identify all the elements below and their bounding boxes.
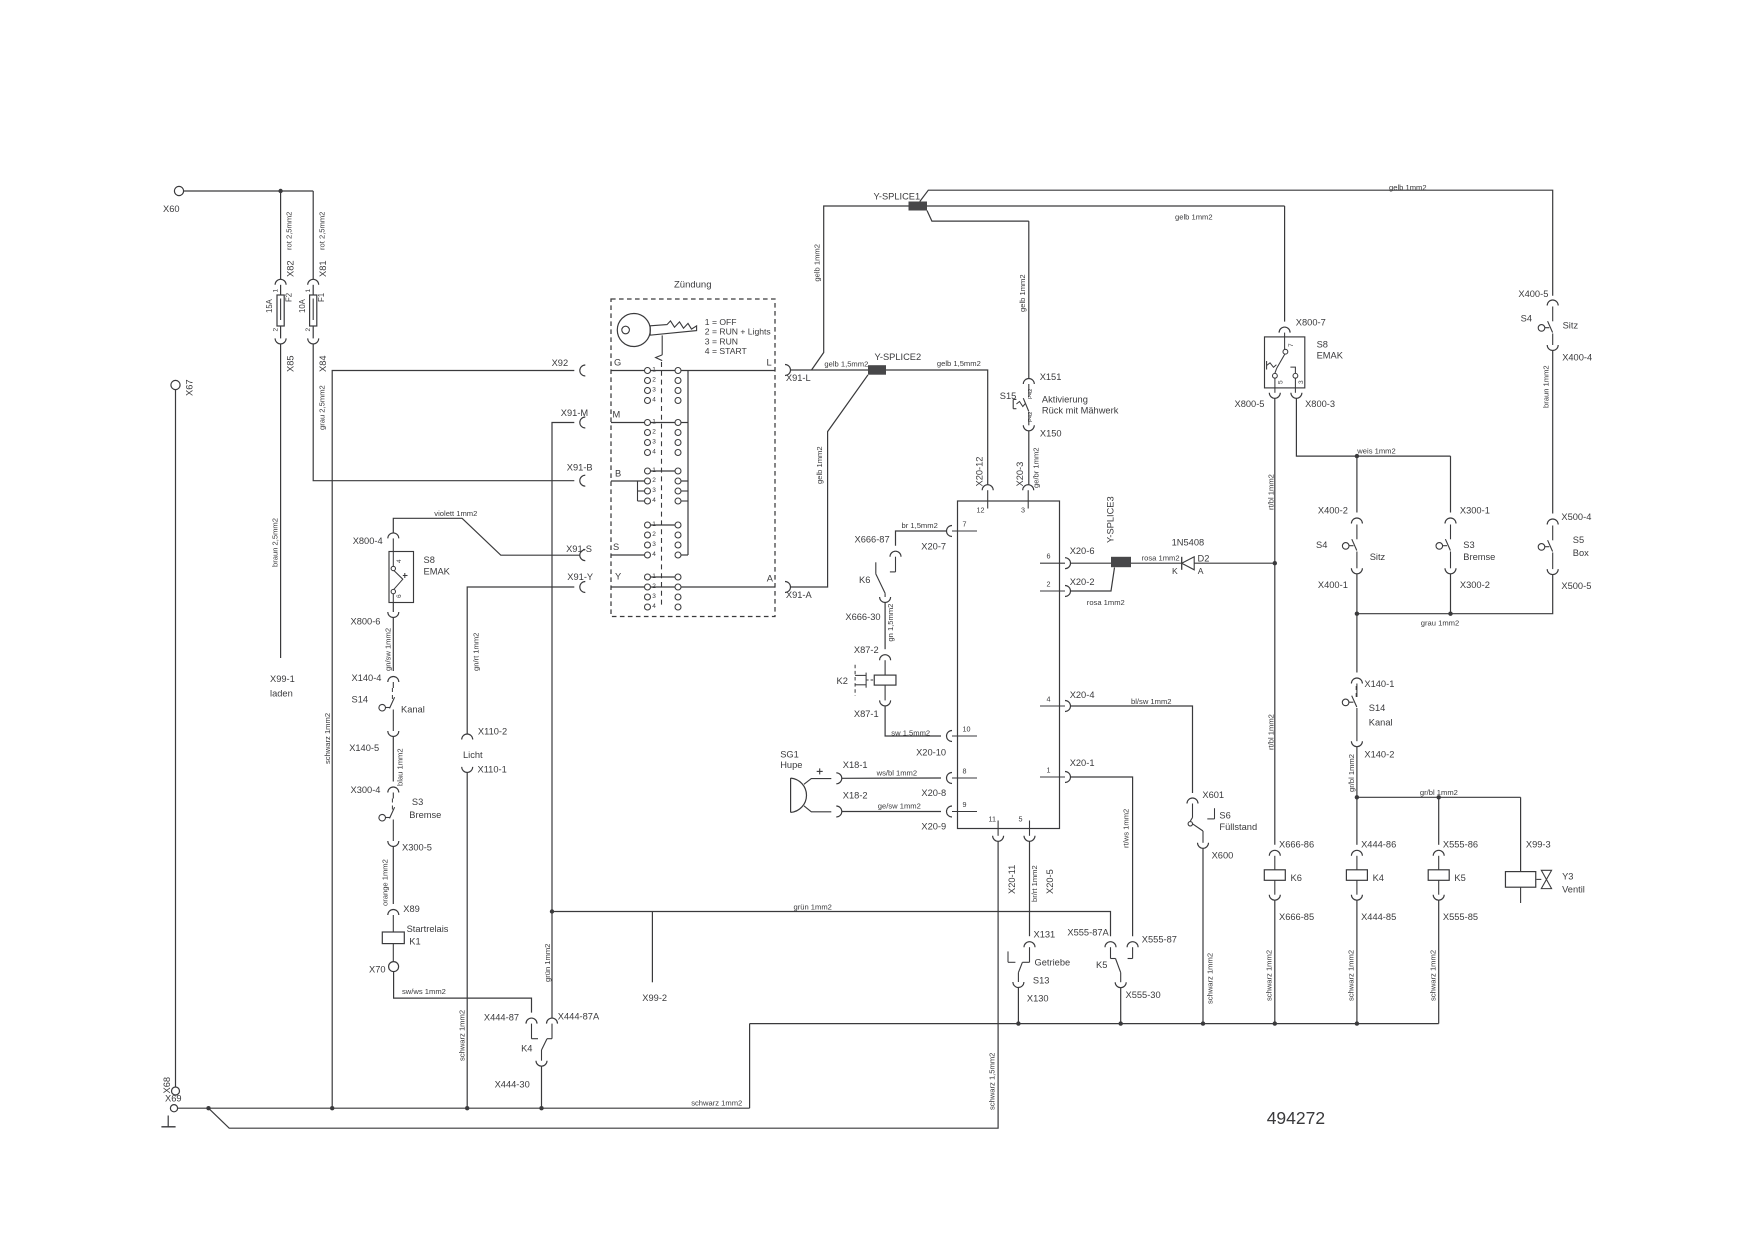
fuse F1 10A bbox=[298, 285, 326, 332]
connector X666-85 bbox=[1269, 880, 1314, 922]
svg-text:K6: K6 bbox=[1291, 873, 1302, 883]
svg-text:3: 3 bbox=[652, 593, 656, 600]
connector X81 bbox=[308, 260, 329, 284]
svg-text:8: 8 bbox=[963, 767, 967, 776]
svg-text:X131: X131 bbox=[1034, 930, 1056, 940]
svg-text:X99-2: X99-2 bbox=[642, 993, 667, 1003]
svg-text:1: 1 bbox=[652, 521, 656, 528]
svg-text:EMAK: EMAK bbox=[424, 567, 451, 577]
relay coil K6 bbox=[1264, 856, 1302, 883]
svg-text:rot 2,5mm2: rot 2,5mm2 bbox=[285, 212, 294, 250]
connector X555-87 bbox=[1127, 935, 1177, 948]
svg-text:X444-87: X444-87 bbox=[484, 1013, 519, 1023]
svg-text:X18-2: X18-2 bbox=[843, 791, 868, 801]
wire gelb 1mm2 X91-A bbox=[791, 375, 869, 587]
svg-text:X20-7: X20-7 bbox=[921, 542, 946, 552]
svg-text:X400-5: X400-5 bbox=[1518, 289, 1548, 299]
wire ge/sw 1mm2 bbox=[842, 801, 941, 811]
svg-text:grau 1mm2: grau 1mm2 bbox=[1421, 619, 1459, 628]
svg-text:4: 4 bbox=[396, 559, 403, 563]
wire ignition Y-A row bbox=[611, 586, 775, 588]
wire X99-3 bbox=[1526, 840, 1551, 850]
svg-text:Rück mit Mähwerk: Rück mit Mähwerk bbox=[1042, 406, 1119, 416]
svg-text:S8: S8 bbox=[1317, 340, 1328, 350]
svg-text:gelb 1mm2: gelb 1mm2 bbox=[1389, 183, 1427, 192]
wire rt/bl 1mm2 bbox=[1266, 398, 1275, 845]
connector X800-5 bbox=[1235, 388, 1281, 409]
svg-text:X87-1: X87-1 bbox=[854, 709, 879, 719]
svg-text:2: 2 bbox=[305, 328, 312, 332]
svg-text:X150: X150 bbox=[1040, 429, 1062, 439]
junction grau mid bbox=[1448, 612, 1452, 616]
wire X69 ground rail bbox=[178, 1098, 750, 1108]
svg-text:X20-10: X20-10 bbox=[916, 748, 946, 758]
svg-text:7: 7 bbox=[1288, 343, 1295, 347]
ignition terminal letters bbox=[613, 358, 774, 584]
svg-text:grau 2,5mm2: grau 2,5mm2 bbox=[318, 385, 327, 430]
svg-text:X666-85: X666-85 bbox=[1279, 912, 1314, 922]
wire gelb splice1 right leg bbox=[927, 206, 1285, 221]
wire X20-2 to splice3 bbox=[1071, 568, 1125, 608]
junction on X60 wire bbox=[278, 189, 282, 193]
svg-text:X20-6: X20-6 bbox=[1070, 546, 1095, 556]
svg-text:S15: S15 bbox=[1000, 391, 1017, 401]
svg-text:X666-86: X666-86 bbox=[1279, 840, 1314, 850]
key position legend bbox=[705, 317, 771, 356]
wire schwarz 1mm2 K5 bbox=[1429, 900, 1439, 1023]
ignition right bus bbox=[687, 371, 689, 556]
svg-text:X300-4: X300-4 bbox=[351, 785, 381, 795]
svg-text:9: 9 bbox=[963, 800, 967, 809]
svg-text:X85: X85 bbox=[286, 355, 296, 372]
svg-text:11: 11 bbox=[989, 815, 996, 824]
valve coil Y3 Ventil bbox=[1505, 870, 1584, 903]
svg-text:gr/bl 1mm2: gr/bl 1mm2 bbox=[1347, 754, 1356, 792]
wire weis 1mm2 bbox=[1296, 398, 1450, 456]
horn SG1 Hupe bbox=[780, 749, 831, 812]
svg-text:X800-5: X800-5 bbox=[1235, 399, 1265, 409]
wire grau 1mm2 bbox=[1357, 574, 1553, 628]
connector X666-87 bbox=[855, 535, 902, 557]
connector X91-A bbox=[785, 582, 813, 601]
connector X85 bbox=[275, 338, 296, 372]
svg-text:X91-B: X91-B bbox=[567, 463, 593, 473]
svg-text:X70: X70 bbox=[369, 965, 386, 975]
svg-text:X18-1: X18-1 bbox=[843, 760, 868, 770]
svg-text:K1: K1 bbox=[409, 937, 420, 947]
connector X150 bbox=[1023, 425, 1061, 438]
svg-text:Startrelais: Startrelais bbox=[407, 924, 449, 934]
wire gruen to X555-87A bbox=[552, 903, 1111, 937]
svg-text:X81: X81 bbox=[318, 260, 328, 277]
connector X131 bbox=[1024, 930, 1055, 948]
svg-text:1N5408: 1N5408 bbox=[1172, 538, 1205, 548]
wire gr/bl 1mm2 vertical bbox=[1347, 747, 1357, 845]
svg-text:X92: X92 bbox=[552, 358, 569, 368]
svg-text:2: 2 bbox=[1047, 580, 1051, 589]
svg-text:gelb 1mm2: gelb 1mm2 bbox=[815, 446, 824, 484]
switch S15 bbox=[1000, 384, 1119, 425]
junction X444-30 ground bbox=[539, 1106, 543, 1110]
svg-text:X444-87A: X444-87A bbox=[558, 1012, 600, 1022]
wire sw/ws 1mm2 bbox=[394, 972, 532, 1013]
wire ws/bl 1mm2 bbox=[842, 768, 941, 778]
connector X555-85 bbox=[1433, 880, 1478, 922]
svg-text:Kanal: Kanal bbox=[1369, 718, 1393, 728]
svg-text:K6: K6 bbox=[859, 575, 870, 585]
fuse F2 15A bbox=[265, 285, 293, 332]
svg-text:gelb 1,5mm2: gelb 1,5mm2 bbox=[937, 359, 981, 368]
connector X300-4 bbox=[351, 785, 399, 795]
svg-text:1: 1 bbox=[652, 366, 656, 373]
wire K5 feed bbox=[1438, 797, 1440, 845]
key icon bbox=[617, 314, 696, 361]
wire schwarz 1mm2 bus A bbox=[750, 1023, 1439, 1025]
svg-text:X555-86: X555-86 bbox=[1443, 840, 1478, 850]
svg-text:3: 3 bbox=[652, 541, 656, 548]
ignition divider dashed bbox=[661, 362, 663, 606]
terminal X68 bbox=[162, 1077, 180, 1095]
lamp Licht label bbox=[463, 750, 483, 760]
svg-text:X444-86: X444-86 bbox=[1361, 840, 1396, 850]
junction weis split bbox=[1355, 454, 1359, 458]
wire br/rt 1mm2 bbox=[1030, 841, 1039, 936]
svg-text:Bremse: Bremse bbox=[1463, 552, 1495, 562]
wire X555-30 to bus bbox=[1120, 988, 1122, 1024]
svg-text:X666-87: X666-87 bbox=[855, 535, 890, 545]
svg-text:X91-Y: X91-Y bbox=[567, 572, 593, 582]
svg-text:1: 1 bbox=[273, 289, 280, 293]
svg-text:orange 1mm2: orange 1mm2 bbox=[381, 859, 390, 906]
svg-text:X110-2: X110-2 bbox=[478, 727, 507, 737]
svg-text:K5: K5 bbox=[1454, 873, 1465, 883]
svg-text:X91-A: X91-A bbox=[786, 590, 813, 600]
svg-text:F2: F2 bbox=[284, 293, 293, 302]
junction K4 bus bbox=[1355, 1021, 1359, 1025]
svg-text:X140-1: X140-1 bbox=[1364, 679, 1394, 689]
svg-text:X400-1: X400-1 bbox=[1318, 580, 1348, 590]
connector X555-87A bbox=[1067, 928, 1116, 948]
svg-text:S5: S5 bbox=[1573, 535, 1584, 545]
connector X82 bbox=[275, 260, 296, 284]
svg-text:A: A bbox=[767, 574, 774, 584]
relay coil K4 bbox=[1346, 856, 1384, 883]
svg-text:Y-SPLICE2: Y-SPLICE2 bbox=[875, 352, 922, 362]
svg-text:Y3: Y3 bbox=[1562, 872, 1573, 882]
wire schwarz 1,5mm2 bus B bbox=[209, 841, 999, 1128]
junction X92 ground bbox=[330, 1106, 334, 1110]
splice Y-SPLICE1 bbox=[874, 192, 928, 211]
svg-text:1: 1 bbox=[652, 467, 656, 474]
svg-text:violett 1mm2: violett 1mm2 bbox=[434, 509, 477, 518]
wire to X400-2 bbox=[1356, 456, 1358, 512]
svg-text:ge/br 1mm2: ge/br 1mm2 bbox=[1031, 447, 1040, 488]
connector X91-Y bbox=[567, 572, 593, 593]
pin 9 bbox=[921, 800, 977, 832]
connector X666-30 bbox=[845, 597, 890, 622]
svg-text:K: K bbox=[1172, 566, 1178, 576]
svg-text:K5: K5 bbox=[1096, 960, 1107, 970]
connector X444-87A bbox=[547, 1012, 600, 1024]
svg-text:K2: K2 bbox=[837, 676, 848, 686]
connector X400-5 bbox=[1518, 289, 1548, 299]
connector X444-86 bbox=[1351, 840, 1396, 856]
svg-text:D2: D2 bbox=[1198, 554, 1210, 564]
svg-text:X67: X67 bbox=[185, 379, 195, 396]
svg-text:4: 4 bbox=[1047, 695, 1051, 704]
connector X84 bbox=[308, 338, 329, 372]
connector X92 bbox=[552, 358, 586, 376]
svg-text:X666-30: X666-30 bbox=[845, 612, 880, 622]
svg-text:X300-1: X300-1 bbox=[1460, 506, 1490, 516]
relay contact K5 bbox=[1096, 947, 1133, 982]
svg-text:3: 3 bbox=[652, 487, 656, 494]
svg-text:blau 1mm2: blau 1mm2 bbox=[396, 748, 405, 786]
svg-text:X91-M: X91-M bbox=[561, 408, 588, 418]
svg-text:2: 2 bbox=[652, 531, 656, 538]
connector X555-30 bbox=[1115, 982, 1160, 1000]
connector X800-3 bbox=[1291, 388, 1335, 409]
wire rosa 1mm2 right bbox=[1131, 554, 1182, 564]
svg-text:EMAK: EMAK bbox=[1317, 351, 1344, 361]
connector X600 bbox=[1198, 843, 1234, 861]
connector X87-2 bbox=[854, 645, 891, 660]
wire grau 2,5mm2 X84 to X91-B bbox=[313, 344, 574, 481]
svg-text:Y: Y bbox=[615, 572, 621, 582]
terminal X67 bbox=[171, 379, 195, 396]
svg-text:4: 4 bbox=[652, 396, 656, 403]
svg-text:schwarz 1mm2: schwarz 1mm2 bbox=[458, 1010, 467, 1061]
terminal X60 bbox=[163, 186, 184, 214]
wire X20-6 to splice3 bbox=[1071, 562, 1112, 564]
wire ge/br 1mm2 bbox=[1029, 431, 1041, 488]
pin 5 bbox=[1019, 815, 1056, 895]
relay coil K5 bbox=[1428, 856, 1466, 883]
svg-text:2: 2 bbox=[652, 428, 656, 435]
ground bbox=[161, 1116, 175, 1127]
wire gn/sw 1mm2 bbox=[384, 618, 394, 672]
pin 6 bbox=[1040, 546, 1095, 569]
wire ignition Y1 link bbox=[651, 576, 676, 578]
wire ignition M row bbox=[611, 422, 688, 424]
svg-text:X20-8: X20-8 bbox=[921, 788, 946, 798]
svg-text:X444-30: X444-30 bbox=[495, 1080, 530, 1090]
svg-text:X20-4: X20-4 bbox=[1070, 690, 1095, 700]
svg-text:4 = START: 4 = START bbox=[705, 346, 748, 356]
connector X130 bbox=[1013, 982, 1049, 1004]
sheet number bbox=[1267, 1108, 1325, 1128]
svg-text:Y-SPLICE3: Y-SPLICE3 bbox=[1106, 496, 1116, 543]
connector X110-2 bbox=[462, 727, 507, 740]
svg-text:X151: X151 bbox=[1040, 372, 1062, 382]
svg-text:3: 3 bbox=[1021, 506, 1025, 515]
svg-text:2 = RUN + Lights: 2 = RUN + Lights bbox=[705, 327, 771, 337]
wire grau to X140-1 bbox=[1356, 614, 1358, 673]
junction gr/bl K5 bbox=[1437, 795, 1441, 799]
splice Y-SPLICE2 bbox=[791, 352, 922, 375]
connector X300-5 bbox=[388, 841, 432, 853]
svg-text:schwarz 1mm2: schwarz 1mm2 bbox=[1347, 950, 1356, 1001]
svg-text:S3: S3 bbox=[412, 797, 423, 807]
svg-text:gn 1,5mm2: gn 1,5mm2 bbox=[886, 604, 895, 642]
connector X400-4 label bbox=[1562, 352, 1592, 362]
svg-text:schwarz 1mm2: schwarz 1mm2 bbox=[323, 713, 332, 764]
svg-text:X555-30: X555-30 bbox=[1126, 990, 1161, 1000]
svg-text:Ventil: Ventil bbox=[1562, 885, 1585, 895]
svg-text:S4: S4 bbox=[1316, 540, 1327, 550]
svg-text:2: 2 bbox=[652, 583, 656, 590]
svg-text:Y-SPLICE1: Y-SPLICE1 bbox=[874, 192, 921, 202]
svg-text:schwarz 1mm2: schwarz 1mm2 bbox=[1429, 950, 1438, 1001]
wire gn 1,5mm2 bbox=[885, 603, 895, 650]
wire X60 feed bbox=[184, 190, 314, 192]
diode D2 1N5408 bbox=[1172, 538, 1210, 577]
wire br 1,5mm2 bbox=[896, 521, 947, 546]
connector X91-B bbox=[567, 463, 593, 487]
svg-text:1: 1 bbox=[1047, 766, 1051, 775]
pin 7 bbox=[921, 520, 977, 552]
ignition contact circles bbox=[645, 366, 682, 610]
svg-text:2: 2 bbox=[273, 328, 280, 332]
svg-text:schwarz 1mm2: schwarz 1mm2 bbox=[691, 1098, 742, 1107]
svg-text:Kanal: Kanal bbox=[401, 704, 425, 714]
wire gelb 1mm2 top bbox=[920, 183, 1553, 296]
svg-text:K4: K4 bbox=[521, 1044, 532, 1054]
terminal X69 bbox=[165, 1094, 182, 1112]
svg-text:A: A bbox=[1198, 566, 1204, 576]
wire sw 1,5mm2 bbox=[885, 706, 941, 738]
svg-text:S3: S3 bbox=[1463, 540, 1474, 550]
node X99-2 bbox=[642, 912, 667, 1004]
svg-text:X91-L: X91-L bbox=[786, 373, 811, 383]
connector block X20 bbox=[958, 501, 1060, 829]
svg-text:Sitz: Sitz bbox=[1370, 552, 1386, 562]
svg-text:X600: X600 bbox=[1212, 851, 1234, 861]
svg-text:X500-5: X500-5 bbox=[1561, 581, 1591, 591]
svg-text:ws/bl 1mm2: ws/bl 1mm2 bbox=[876, 768, 918, 777]
pin 10 bbox=[916, 725, 977, 758]
svg-text:schwarz 1,5mm2: schwarz 1,5mm2 bbox=[988, 1053, 997, 1110]
switch S8 EMAK left bbox=[389, 538, 451, 602]
svg-text:Zündung: Zündung bbox=[674, 280, 712, 291]
relay coil K2 bbox=[837, 660, 896, 696]
wire X800-7 feed bbox=[1284, 206, 1286, 322]
svg-text:X555-85: X555-85 bbox=[1443, 912, 1478, 922]
svg-text:7: 7 bbox=[963, 520, 967, 529]
svg-text:3: 3 bbox=[1298, 380, 1305, 384]
svg-text:X87-2: X87-2 bbox=[854, 645, 879, 655]
switch S3 Bremse left bbox=[379, 793, 441, 842]
svg-text:X99-1: X99-1 bbox=[270, 674, 295, 684]
connector X800-6 bbox=[351, 603, 399, 627]
svg-text:SG1: SG1 bbox=[780, 749, 799, 759]
wire ignition S row in bbox=[611, 554, 688, 556]
pin 11 bbox=[989, 815, 1017, 895]
svg-text:K4: K4 bbox=[1373, 873, 1384, 883]
wire violett 1mm2 bbox=[393, 509, 580, 555]
svg-text:rt/bl 1mm2: rt/bl 1mm2 bbox=[1266, 474, 1275, 510]
terminal X70 bbox=[369, 944, 399, 975]
junction grau left bbox=[1355, 612, 1359, 616]
svg-text:X60: X60 bbox=[163, 204, 180, 214]
switch S4 Sitz top bbox=[1521, 300, 1579, 351]
pin 3 bbox=[1015, 462, 1034, 515]
svg-text:X500-4: X500-4 bbox=[1561, 512, 1591, 522]
svg-text:5: 5 bbox=[1277, 380, 1284, 384]
svg-text:G: G bbox=[614, 358, 621, 368]
svg-text:X140-2: X140-2 bbox=[1364, 750, 1394, 760]
svg-text:L: L bbox=[767, 358, 772, 368]
svg-text:Sitz: Sitz bbox=[1563, 321, 1579, 331]
connector X666-86 bbox=[1269, 840, 1314, 856]
svg-text:S8: S8 bbox=[424, 555, 435, 565]
wire bl/sw 1mm2 bbox=[1071, 697, 1193, 793]
connector X555-86 bbox=[1433, 840, 1478, 856]
wire rot 2,5mm2 to F1 bbox=[313, 191, 326, 279]
svg-text:Füllstand: Füllstand bbox=[1219, 822, 1257, 832]
node X99-1 laden bbox=[270, 674, 295, 699]
svg-text:X140-5: X140-5 bbox=[349, 743, 379, 753]
svg-text:grün 1mm2: grün 1mm2 bbox=[543, 944, 552, 982]
wire ignition B row in bbox=[611, 480, 688, 482]
svg-text:gelb 1mm2: gelb 1mm2 bbox=[813, 244, 822, 282]
svg-text:X800-3: X800-3 bbox=[1305, 399, 1335, 409]
svg-text:6: 6 bbox=[396, 594, 403, 598]
connector X140-5 bbox=[349, 731, 399, 753]
svg-text:grün 1mm2: grün 1mm2 bbox=[794, 903, 832, 912]
connector X18-2 bbox=[836, 791, 867, 818]
wire X600 to bus schwarz 1mm2 bbox=[1203, 848, 1214, 1023]
svg-text:X68: X68 bbox=[162, 1077, 172, 1094]
svg-text:rosa 1mm2: rosa 1mm2 bbox=[1142, 554, 1180, 563]
ignition box Zündung bbox=[611, 280, 775, 617]
junction K6 bus bbox=[1273, 1021, 1277, 1025]
wire X67 to X68 bbox=[175, 390, 177, 1087]
connector X91-M bbox=[561, 408, 588, 428]
svg-text:X800-4: X800-4 bbox=[353, 536, 383, 546]
svg-text:S14: S14 bbox=[1369, 703, 1386, 713]
svg-text:X84: X84 bbox=[318, 355, 328, 372]
connector X444-85 bbox=[1351, 880, 1396, 922]
wire orange 1mm2 bbox=[381, 847, 394, 907]
svg-text:494272: 494272 bbox=[1267, 1108, 1325, 1128]
ignition B bracket bbox=[638, 481, 689, 501]
pin 1 bbox=[1040, 758, 1095, 783]
svg-text:Bremse: Bremse bbox=[409, 810, 441, 820]
svg-text:X400-2: X400-2 bbox=[1318, 506, 1348, 516]
wire gruen X91-M down bbox=[543, 423, 575, 1019]
pin 4 bbox=[1040, 690, 1095, 712]
connector X91-S bbox=[566, 544, 592, 561]
svg-text:X91-S: X91-S bbox=[566, 544, 592, 554]
connector X89 bbox=[388, 904, 420, 915]
svg-text:X20-1: X20-1 bbox=[1070, 758, 1095, 768]
connector X800-4 bbox=[353, 533, 399, 546]
svg-text:gn/rt 1mm2: gn/rt 1mm2 bbox=[471, 633, 480, 671]
svg-text:ge/sw 1mm2: ge/sw 1mm2 bbox=[878, 801, 921, 810]
wire rt/ws 1mm2 bbox=[1071, 777, 1133, 936]
pin 8 bbox=[921, 767, 977, 799]
connector X800-7 bbox=[1279, 318, 1326, 333]
svg-text:sw 1,5mm2: sw 1,5mm2 bbox=[891, 728, 930, 737]
svg-text:rot 2,5mm2: rot 2,5mm2 bbox=[317, 212, 326, 250]
wire X444-30 to bus bbox=[541, 1066, 543, 1108]
wire schwarz 1mm2 K4 bbox=[1347, 900, 1357, 1023]
svg-text:X20-3: X20-3 bbox=[1015, 462, 1025, 487]
connector X140-4 bbox=[352, 673, 399, 683]
wire gelb 1mm2 to X151 bbox=[1018, 221, 1029, 378]
wire rot 2,5mm2 to F2 bbox=[281, 191, 294, 279]
